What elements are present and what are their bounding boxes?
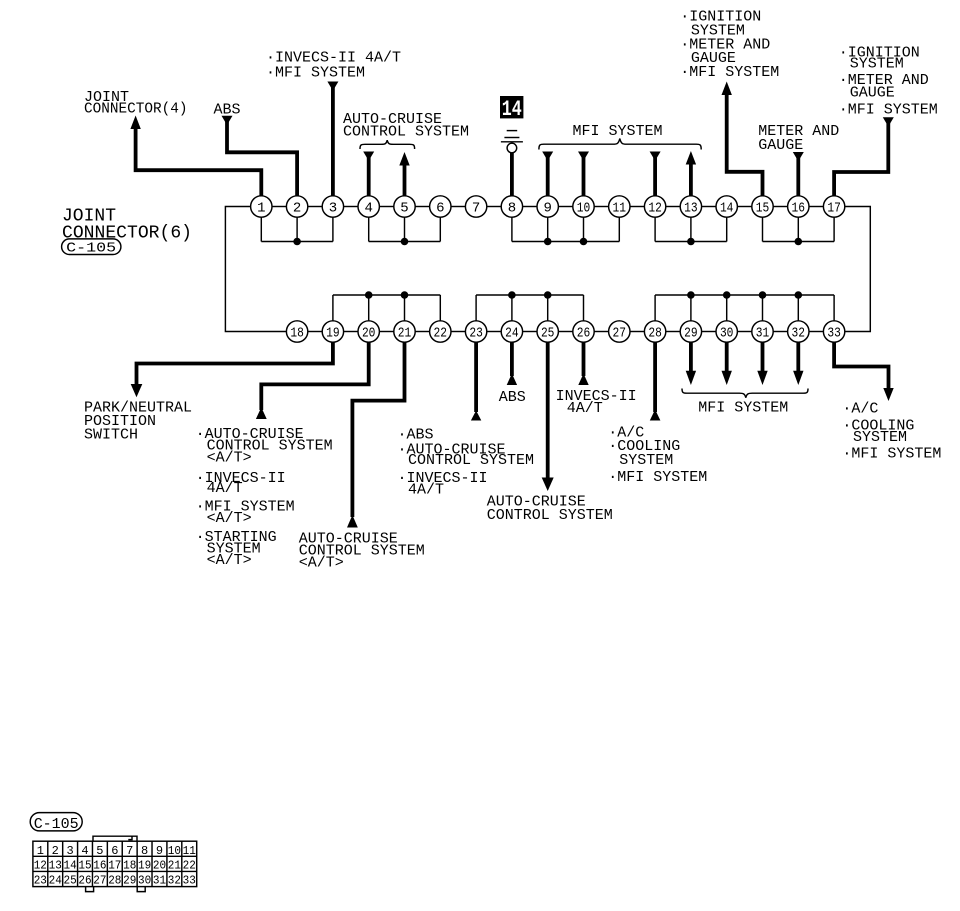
- label AUTO-CRUISE CONTROL SYSTEM (pin 25): [487, 494, 613, 524]
- svg-text:19: 19: [326, 326, 340, 342]
- wire row1 5-6: [415, 206, 429, 208]
- pin 16 terminal circle: [788, 196, 809, 217]
- pin 6 terminal circle: [430, 196, 451, 217]
- pin 5 terminal circle: [394, 196, 415, 217]
- svg-text:26: 26: [78, 873, 91, 887]
- svg-text:17: 17: [827, 201, 841, 217]
- svg-text:5: 5: [96, 844, 103, 858]
- pin 22 terminal circle: [430, 321, 451, 342]
- svg-text:<A/T>: <A/T>: [207, 510, 252, 527]
- wire right link pin17 to pin33: [845, 207, 871, 332]
- svg-text:31: 31: [153, 873, 166, 887]
- svg-text:SYSTEM: SYSTEM: [619, 452, 673, 469]
- svg-text:14: 14: [64, 859, 77, 873]
- svg-text:21: 21: [398, 326, 412, 342]
- wire row1 15-16: [773, 206, 787, 208]
- bus row1 pins 4-6: [369, 217, 441, 241]
- wire row1 4-5: [379, 206, 393, 208]
- label METER AND GAUGE (pin 16): [758, 123, 839, 154]
- svg-text:21: 21: [168, 859, 181, 873]
- svg-text:2: 2: [52, 844, 59, 858]
- wire pin 31 arrow down MFI SYSTEM: [757, 342, 767, 385]
- wire pin 21 elbow arrow up AUTO-CRUISE A/T: [347, 342, 405, 527]
- svg-text:<A/T>: <A/T>: [299, 554, 344, 571]
- pin 33 terminal circle: [823, 321, 844, 342]
- junction dot pin 29 bus: [687, 291, 695, 299]
- junction dot pin 31 bus: [759, 291, 767, 299]
- svg-text:<A/T>: <A/T>: [207, 552, 252, 569]
- svg-text:13: 13: [49, 859, 62, 873]
- pin 1 terminal circle: [251, 196, 272, 217]
- wire pin 9 arrow down: [542, 152, 553, 196]
- bus row2 pins 19-22: [333, 295, 440, 321]
- pin 19 terminal circle: [322, 321, 343, 342]
- svg-text:4A/T: 4A/T: [207, 480, 243, 497]
- label MFI SYSTEM (pins 9-13): [573, 123, 663, 140]
- junction dot pin 30 bus: [723, 291, 731, 299]
- svg-text:28: 28: [648, 326, 662, 342]
- wire row2 18-19: [308, 331, 322, 333]
- wire left link pin1 to pin18: [225, 207, 286, 332]
- svg-text:32: 32: [168, 873, 181, 887]
- svg-text:SYSTEM: SYSTEM: [853, 429, 907, 446]
- svg-text:9: 9: [543, 201, 551, 217]
- pin 21 terminal circle: [394, 321, 415, 342]
- pin 8 terminal circle: [501, 196, 522, 217]
- svg-text:MFI SYSTEM: MFI SYSTEM: [698, 399, 788, 416]
- pin 13 terminal circle: [680, 196, 701, 217]
- connector name box C-105 (upper): [62, 239, 121, 256]
- svg-text:27: 27: [93, 873, 106, 887]
- wire row1 8-9: [523, 206, 537, 208]
- svg-text:33: 33: [827, 326, 841, 342]
- junction dot pin 21 bus: [401, 291, 409, 299]
- wire pin 16 arrow down METER AND GAUGE: [793, 152, 804, 196]
- svg-text:18: 18: [290, 326, 304, 342]
- label JOINT CONNECTOR(6): [62, 206, 192, 243]
- pin 7 terminal circle: [465, 196, 486, 217]
- pin 3 terminal circle: [322, 196, 343, 217]
- pin 9 terminal circle: [537, 196, 558, 217]
- wire row1 10-11: [594, 206, 608, 208]
- wire row1 11-12: [630, 206, 644, 208]
- bus row1 pins 8-11: [512, 217, 619, 241]
- bus row1 pins 12-14: [655, 217, 727, 241]
- wire to INVECS-II/MFI from pin 3, arrow down: [327, 82, 338, 196]
- pin 25 terminal circle: [537, 321, 558, 342]
- svg-text:CONTROL SYSTEM: CONTROL SYSTEM: [408, 452, 534, 469]
- pin 26 terminal circle: [573, 321, 594, 342]
- label AUTO-CRUISE CONTROL SYSTEM A/T (pin 21): [299, 530, 425, 571]
- bus row1 pins 15-17: [763, 217, 835, 241]
- svg-text:25: 25: [541, 326, 555, 342]
- svg-text:24: 24: [49, 873, 62, 887]
- svg-text:C-105: C-105: [66, 240, 116, 256]
- wire pin 33 elbow arrow down A/C list: [834, 342, 894, 401]
- svg-text:19: 19: [138, 859, 151, 873]
- svg-text:14: 14: [502, 97, 522, 122]
- svg-text:CONTROL SYSTEM: CONTROL SYSTEM: [343, 123, 469, 140]
- svg-text:MFI SYSTEM: MFI SYSTEM: [573, 123, 663, 140]
- label list pin 28: [608, 425, 707, 487]
- bracket MFI SYSTEM pins 29-32 (below): [682, 389, 808, 398]
- label list pin 20: [196, 426, 333, 569]
- wire row2 28-29: [666, 331, 680, 333]
- pin 14 terminal circle: [716, 196, 737, 217]
- wire pin 24 arrow up ABS: [507, 342, 517, 385]
- pin 32 terminal circle: [788, 321, 809, 342]
- wire row1 2-3: [308, 206, 322, 208]
- svg-text:10: 10: [577, 201, 591, 217]
- label list pin 33: [842, 401, 941, 463]
- wire pin 15 elbow arrow up to IGNITION list: [722, 82, 763, 196]
- svg-text:9: 9: [156, 844, 163, 858]
- wire row2 23-24: [487, 331, 501, 333]
- pin 17 terminal circle: [823, 196, 844, 217]
- svg-text:24: 24: [505, 326, 519, 342]
- pin 11 terminal circle: [609, 196, 630, 217]
- svg-text:18: 18: [123, 859, 136, 873]
- connector pin-layout table C-105: [33, 841, 197, 887]
- wire pin 8 to connector 14: [510, 153, 514, 196]
- wire pin 5 arrow up: [399, 152, 409, 196]
- svg-text:4: 4: [364, 201, 372, 217]
- pin 30 terminal circle: [716, 321, 737, 342]
- wire row2 30-31: [737, 331, 751, 333]
- connector lock tab (top of table): [93, 836, 137, 841]
- bus row1 pins 1-3: [261, 217, 333, 241]
- label JOINT CONNECTOR(4): [84, 89, 188, 118]
- pin 23 terminal circle: [465, 321, 486, 342]
- wire pin 26 arrow up INVECS-II 4A/T: [578, 342, 588, 385]
- pin 24 terminal circle: [501, 321, 522, 342]
- svg-text:11: 11: [183, 844, 196, 858]
- svg-text:3: 3: [66, 844, 73, 858]
- svg-text:12: 12: [648, 201, 662, 217]
- svg-text:15: 15: [756, 201, 770, 217]
- wire row1 3-4: [344, 206, 358, 208]
- label INVECS-II 4A/T (pin 26): [556, 388, 637, 417]
- svg-text:·A/C: ·A/C: [842, 401, 878, 418]
- label ABS (pin 2): [214, 101, 241, 118]
- svg-text:·MFI SYSTEM: ·MFI SYSTEM: [839, 102, 938, 119]
- svg-text:20: 20: [362, 326, 376, 342]
- pin 27 terminal circle: [609, 321, 630, 342]
- svg-text:11: 11: [613, 201, 627, 217]
- junction dot pin 10 bus: [580, 238, 588, 246]
- svg-text:1: 1: [257, 201, 265, 217]
- sheet connector 14 box: [500, 96, 523, 122]
- wire row1 6-7: [451, 206, 465, 208]
- label list pin 15: IGNITION SYSTEM / METER AND GAUGE / MFI SYSTEM: [680, 9, 779, 81]
- wire to ABS from pin 2, arrow down: [222, 116, 298, 196]
- wire row1 13-14: [702, 206, 716, 208]
- bus row2 pins 23-26: [476, 295, 583, 321]
- wire row2 32-33: [809, 331, 823, 333]
- svg-text:4A/T: 4A/T: [567, 400, 603, 417]
- svg-text:27: 27: [613, 326, 627, 342]
- svg-text:13: 13: [684, 201, 698, 217]
- svg-text:<A/T>: <A/T>: [207, 450, 252, 467]
- svg-text:17: 17: [108, 859, 121, 873]
- svg-text:CONNECTOR(4): CONNECTOR(4): [84, 101, 188, 118]
- svg-text:8: 8: [508, 201, 516, 217]
- svg-text:·MFI SYSTEM: ·MFI SYSTEM: [680, 64, 779, 81]
- svg-text:8: 8: [141, 844, 148, 858]
- pin 2 terminal circle: [286, 196, 307, 217]
- svg-text:7: 7: [472, 201, 480, 217]
- svg-text:12: 12: [34, 859, 47, 873]
- wire row2 21-22: [415, 331, 429, 333]
- junction dot pin 24 bus: [508, 291, 516, 299]
- pin 10 terminal circle: [573, 196, 594, 217]
- wire pin 19 elbow arrow down to PARK/NEUTRAL POSITION SWITCH: [131, 342, 333, 397]
- junction dot pin 5 bus: [401, 238, 409, 246]
- wire row1 16-17: [809, 206, 823, 208]
- label AUTO-CRUISE CONTROL SYSTEM (pins 4-5): [343, 111, 469, 141]
- wire row2 20-21: [379, 331, 393, 333]
- svg-text:16: 16: [792, 201, 806, 217]
- wire pin 25 long arrow down AUTO-CRUISE CONTROL SYSTEM: [542, 342, 554, 491]
- svg-text:6: 6: [111, 844, 118, 858]
- wire pin 20 elbow arrow up (list): [256, 342, 369, 419]
- wire row1 9-10: [558, 206, 572, 208]
- wire row2 24-25: [523, 331, 537, 333]
- wire row1 1-2: [272, 206, 286, 208]
- svg-text:23: 23: [34, 873, 47, 887]
- svg-text:15: 15: [78, 859, 91, 873]
- wire row1 12-13: [666, 206, 680, 208]
- bus row2 pins 28-33: [655, 295, 834, 321]
- connector latch slot left (below table): [86, 887, 94, 892]
- svg-text:SYSTEM: SYSTEM: [850, 56, 904, 73]
- label INVECS-II 4A/T / MFI SYSTEM (pin 3): [266, 49, 401, 81]
- label list pin 17: IGNITION SYSTEM / METER AND GAUGE / MFI SYSTEM: [839, 45, 938, 119]
- pin 29 terminal circle: [680, 321, 701, 342]
- svg-text:ABS: ABS: [214, 101, 241, 118]
- svg-text:2: 2: [293, 201, 301, 217]
- junction dot pin 16 bus: [795, 238, 803, 246]
- wire row2 31-32: [773, 331, 787, 333]
- svg-text:1: 1: [37, 844, 44, 858]
- svg-text:25: 25: [64, 873, 77, 887]
- svg-text:5: 5: [400, 201, 408, 217]
- pin 20 terminal circle: [358, 321, 379, 342]
- bracket AUTO-CRUISE pins 4-5: [360, 140, 415, 149]
- wire pin 32 arrow down MFI SYSTEM: [793, 342, 803, 385]
- svg-text:33: 33: [183, 873, 196, 887]
- svg-text:14: 14: [720, 201, 734, 217]
- svg-text:GAUGE: GAUGE: [850, 85, 895, 102]
- wire pin 23 arrow up (list): [471, 342, 481, 420]
- label PARK/NEUTRAL POSITION SWITCH (pin 19): [84, 400, 192, 444]
- wire row1 7-8: [487, 206, 501, 208]
- svg-text:3: 3: [329, 201, 337, 217]
- svg-text:6: 6: [436, 201, 444, 217]
- svg-text:20: 20: [153, 859, 166, 873]
- wire pin 12 arrow down: [650, 152, 661, 196]
- svg-text:·MFI SYSTEM: ·MFI SYSTEM: [608, 469, 707, 486]
- wire row2 25-26: [558, 331, 572, 333]
- pin 15 terminal circle: [752, 196, 773, 217]
- bracket MFI SYSTEM pins 9-13: [539, 139, 701, 150]
- svg-text:10: 10: [168, 844, 181, 858]
- svg-text:22: 22: [183, 859, 196, 873]
- wire row2 29-30: [702, 331, 716, 333]
- svg-text:28: 28: [108, 873, 121, 887]
- svg-text:4: 4: [81, 844, 88, 858]
- svg-text:23: 23: [469, 326, 483, 342]
- svg-text:·MFI SYSTEM: ·MFI SYSTEM: [266, 65, 365, 82]
- wire row1 14-15: [737, 206, 751, 208]
- svg-text:·MFI SYSTEM: ·MFI SYSTEM: [842, 446, 941, 463]
- wire to JOINT CONNECTOR(4) from pin 1, arrow up: [130, 116, 261, 196]
- pin 18 terminal circle: [286, 321, 307, 342]
- wire pin 30 arrow down MFI SYSTEM: [722, 342, 732, 385]
- pin 28 terminal circle: [644, 321, 665, 342]
- svg-text:C-105: C-105: [34, 816, 79, 833]
- junction dot pin 9 bus: [544, 238, 552, 246]
- svg-text:16: 16: [93, 859, 106, 873]
- svg-text:SWITCH: SWITCH: [84, 426, 138, 443]
- svg-text:29: 29: [684, 326, 698, 342]
- pin 4 terminal circle: [358, 196, 379, 217]
- junction dot pin 32 bus: [795, 291, 803, 299]
- svg-text:GAUGE: GAUGE: [758, 137, 803, 154]
- svg-text:29: 29: [123, 873, 136, 887]
- label ABS (pin 24): [499, 389, 526, 406]
- wire row2 27-28: [630, 331, 644, 333]
- junction dot pin 20 bus: [365, 291, 373, 299]
- wire row2 19-20: [344, 331, 358, 333]
- label MFI SYSTEM (pins 29-32): [698, 399, 788, 416]
- svg-text:4A/T: 4A/T: [408, 481, 444, 498]
- label list pin 23: [398, 427, 535, 499]
- wire pin 17 elbow arrow down from IGNITION list: [834, 117, 894, 196]
- svg-text:31: 31: [756, 326, 770, 342]
- wire pin 4 arrow down: [363, 152, 374, 196]
- wire pin 29 arrow down MFI SYSTEM: [686, 342, 696, 385]
- svg-text:7: 7: [126, 844, 133, 858]
- junction dot pin 25 bus: [544, 291, 552, 299]
- wire row2 22-23: [451, 331, 465, 333]
- wire pin 10 arrow down: [578, 152, 589, 196]
- wire pin 13 arrow up: [686, 151, 696, 196]
- junction dot pin 2 bus: [293, 238, 301, 246]
- svg-text:ABS: ABS: [499, 389, 526, 406]
- svg-text:30: 30: [138, 873, 151, 887]
- pin 12 terminal circle: [644, 196, 665, 217]
- svg-text:22: 22: [434, 326, 448, 342]
- svg-text:32: 32: [792, 326, 806, 342]
- junction dot pin 13 bus: [687, 238, 695, 246]
- svg-text:30: 30: [720, 326, 734, 342]
- connector name box C-105 (lower): [30, 813, 82, 833]
- connector latch slot right (below table): [137, 887, 145, 892]
- wire pin 28 arrow up (list): [650, 342, 661, 420]
- wire row2 26-27: [594, 331, 608, 333]
- svg-text:CONTROL SYSTEM: CONTROL SYSTEM: [487, 507, 613, 524]
- svg-text:26: 26: [577, 326, 591, 342]
- pin 31 terminal circle: [752, 321, 773, 342]
- intermediate connector symbol above pin 8: [501, 131, 523, 153]
